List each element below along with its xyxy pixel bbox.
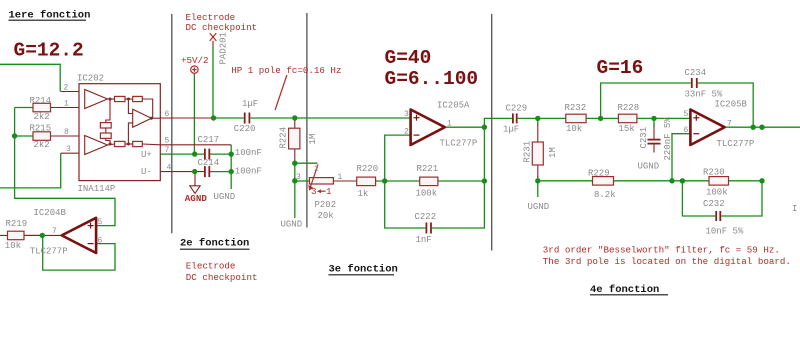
svg-text:R229: R229: [588, 168, 610, 178]
svg-text:C217: C217: [198, 135, 220, 145]
svg-text:1: 1: [64, 100, 69, 109]
svg-text:R221: R221: [417, 164, 439, 174]
svg-text:100nF: 100nF: [235, 148, 262, 158]
svg-text:IC205B: IC205B: [715, 99, 748, 109]
svg-text:TLC277P: TLC277P: [30, 247, 68, 257]
svg-text:C220: C220: [234, 124, 256, 134]
svg-text:6: 6: [98, 237, 103, 246]
svg-text:U+: U+: [141, 150, 152, 160]
svg-text:10k: 10k: [5, 241, 21, 251]
svg-text:The 3rd pole is located on the: The 3rd pole is located on the digital b…: [543, 256, 791, 267]
svg-text:C234: C234: [685, 68, 707, 78]
svg-text:8.2k: 8.2k: [594, 190, 616, 200]
svg-text:R224: R224: [279, 127, 289, 149]
svg-text:G=12.2: G=12.2: [14, 40, 84, 62]
svg-text:UGND: UGND: [638, 162, 660, 172]
svg-text:AGND: AGND: [185, 193, 208, 204]
svg-text:4e fonction: 4e fonction: [590, 284, 659, 296]
svg-text:PAD201: PAD201: [219, 32, 229, 64]
svg-text:100nF: 100nF: [235, 167, 262, 177]
svg-text:I: I: [792, 204, 797, 214]
svg-text:1: 1: [326, 186, 332, 197]
svg-text:G=6..100: G=6..100: [385, 68, 479, 90]
svg-text:DC checkpoint: DC checkpoint: [186, 272, 258, 283]
svg-text:10k: 10k: [566, 124, 582, 134]
svg-text:IC202: IC202: [77, 74, 104, 84]
svg-text:15k: 15k: [619, 124, 635, 134]
svg-text:20k: 20k: [318, 211, 334, 221]
svg-text:100k: 100k: [416, 189, 438, 199]
svg-text:5: 5: [165, 137, 170, 146]
svg-text:R215: R215: [30, 124, 52, 134]
svg-text:3: 3: [296, 173, 301, 182]
svg-text:6: 6: [165, 110, 170, 119]
svg-text:5: 5: [98, 218, 103, 227]
svg-text:3e fonction: 3e fonction: [329, 264, 398, 276]
svg-text:33nF 5%: 33nF 5%: [685, 90, 723, 100]
svg-text:1: 1: [447, 119, 452, 128]
svg-text:2e fonction: 2e fonction: [180, 238, 249, 250]
svg-text:2: 2: [64, 84, 69, 93]
svg-text:UGND: UGND: [528, 202, 550, 212]
svg-text:R214: R214: [30, 96, 52, 106]
svg-text:G=40: G=40: [385, 47, 432, 69]
svg-text:IC205A: IC205A: [437, 101, 470, 111]
svg-text:R232: R232: [565, 103, 587, 113]
svg-text:7: 7: [727, 119, 732, 128]
svg-text:P202: P202: [315, 200, 337, 210]
svg-text:G=16: G=16: [597, 57, 644, 79]
svg-text:IC204B: IC204B: [34, 208, 67, 218]
svg-text:HP 1 pole fc=0.16 Hz: HP 1 pole fc=0.16 Hz: [231, 65, 341, 76]
svg-text:4: 4: [167, 164, 172, 173]
svg-text:UGND: UGND: [214, 192, 236, 202]
svg-text:2k2: 2k2: [34, 112, 50, 122]
svg-text:1µF: 1µF: [503, 124, 519, 134]
svg-text:C232: C232: [703, 199, 725, 209]
svg-text:1: 1: [338, 173, 343, 182]
svg-text:6: 6: [684, 126, 689, 135]
svg-text:7: 7: [165, 146, 170, 155]
svg-text:100k: 100k: [706, 187, 728, 197]
svg-text:Electrode: Electrode: [186, 260, 236, 271]
svg-text:2: 2: [404, 127, 409, 136]
svg-text:3: 3: [66, 145, 71, 154]
svg-text:1µF: 1µF: [242, 99, 258, 109]
svg-text:R219: R219: [6, 219, 28, 229]
svg-text:1M: 1M: [308, 134, 318, 145]
svg-text:C229: C229: [506, 103, 528, 113]
svg-text:U-: U-: [141, 167, 152, 177]
svg-text:3rd order "Besselworth" filter: 3rd order "Besselworth" filter, fc = 59 …: [543, 245, 780, 256]
svg-text:2: 2: [314, 165, 319, 174]
svg-text:R228: R228: [618, 103, 640, 113]
svg-text:7: 7: [52, 227, 57, 236]
svg-text:3: 3: [311, 186, 317, 197]
svg-text:R230: R230: [703, 167, 725, 177]
svg-text:8: 8: [64, 128, 69, 137]
svg-text:DC checkpoint: DC checkpoint: [186, 22, 258, 33]
svg-text:10nF 5%: 10nF 5%: [706, 226, 744, 236]
svg-text:1nF: 1nF: [416, 235, 432, 245]
svg-text:R220: R220: [357, 164, 379, 174]
svg-text:220nF 5%: 220nF 5%: [663, 117, 673, 161]
svg-text:5: 5: [684, 110, 689, 119]
svg-text:1k: 1k: [358, 189, 369, 199]
svg-text:TLC277P: TLC277P: [717, 139, 755, 149]
svg-text:R231: R231: [523, 141, 533, 163]
svg-text:3: 3: [404, 110, 409, 119]
svg-text:2k2: 2k2: [34, 140, 50, 150]
svg-text:INA114P: INA114P: [78, 184, 116, 194]
svg-text:C214: C214: [198, 158, 220, 168]
svg-text:C222: C222: [415, 212, 437, 222]
svg-text:UGND: UGND: [281, 220, 303, 230]
svg-text:1M: 1M: [548, 147, 558, 158]
svg-text:C231: C231: [639, 127, 649, 149]
svg-text:+5V/2: +5V/2: [181, 55, 209, 66]
svg-text:TLC277P: TLC277P: [440, 138, 478, 148]
